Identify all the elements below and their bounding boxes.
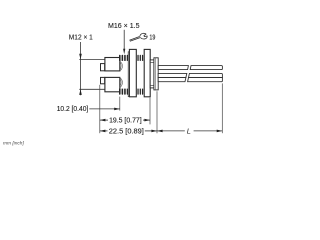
wire 2 segment A (158, 73, 187, 77)
wire 1 segment B (190, 66, 222, 70)
wire 3 segment B (188, 78, 223, 82)
wire 1 segment A (158, 66, 188, 70)
wire 2 segment B (189, 73, 223, 77)
hex nut 2 (144, 49, 150, 96)
wrench icon SW19 (129, 33, 147, 41)
svg-text:L: L (187, 126, 191, 135)
connector front piece (101, 64, 105, 84)
svg-text:mm [inch]: mm [inch] (3, 141, 24, 147)
connector body M12 (105, 58, 120, 92)
hex nut 1 (129, 49, 136, 96)
dimension 19.5 [0.77] (100, 119, 108, 121)
svg-text:M16 × 1.5: M16 × 1.5 (108, 21, 140, 30)
thread section 2 (top teeth) (137, 55, 143, 61)
extension lines (100, 83, 223, 133)
thread section 1 (bottom teeth) (119, 89, 128, 95)
washer before nut 1 (128, 52, 129, 97)
svg-text:M12 × 1: M12 × 1 (69, 33, 93, 42)
svg-text:22.5 [0.89]: 22.5 [0.89] (109, 126, 144, 135)
svg-text:10.2 [0.40]: 10.2 [0.40] (57, 104, 89, 113)
dimension L (157, 130, 185, 132)
svg-text:19: 19 (149, 32, 155, 41)
svg-text:19.5 [0.77]: 19.5 [0.77] (109, 116, 142, 125)
rear washer (150, 60, 154, 88)
wire 3 segment A (158, 78, 186, 82)
thread section 2 (bottom teeth) (137, 89, 143, 95)
rear cap (154, 58, 158, 90)
dimension 22.5 [0.89] (100, 130, 108, 132)
dimension M12 vertical (79, 42, 104, 95)
thread section 1 (top teeth) (119, 55, 128, 61)
thread runout curves (120, 61, 123, 88)
leader M16 (123, 30, 125, 50)
